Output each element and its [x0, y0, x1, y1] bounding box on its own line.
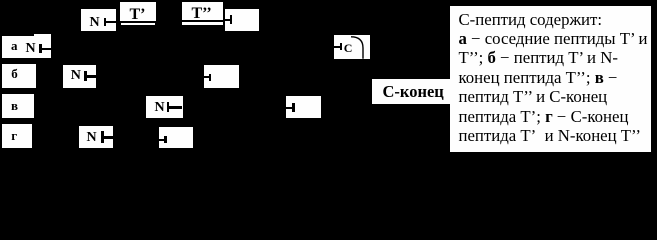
white bar under T'' — [182, 22, 224, 25]
label N (row v) — [155, 101, 165, 115]
label T'' — [192, 6, 212, 22]
wire (row v) — [168, 106, 183, 109]
label C-konec — [383, 84, 444, 101]
label g — [11, 129, 17, 142]
wire into top-right box — [225, 19, 232, 21]
box N (row g) — [79, 126, 113, 148]
label C — [344, 42, 353, 54]
tick in row v right box — [292, 103, 295, 113]
box C-terminus tick (top right) — [225, 9, 260, 30]
wire (row g) — [103, 136, 113, 139]
label N (row b) — [71, 69, 81, 83]
box b label (row b) — [2, 64, 36, 88]
tick in row g right box — [164, 136, 167, 143]
box v label (row v) — [2, 94, 35, 118]
box N (top reference strand, N-terminus) — [81, 9, 116, 31]
box C-tick (row b right) — [204, 65, 239, 88]
tick (row a) — [39, 44, 41, 53]
wire into row g right box — [159, 139, 166, 142]
tick in top-right box — [230, 15, 233, 25]
wire from N tick (top) — [105, 21, 117, 24]
tick in row b right box — [209, 74, 212, 81]
label N (row g) — [87, 131, 97, 145]
label b — [11, 67, 18, 80]
label T' — [130, 7, 146, 23]
tick (row v) — [167, 102, 170, 112]
legend line 2 — [458, 29, 466, 48]
box T' (top) — [120, 2, 156, 21]
box T'' (top) — [182, 2, 223, 20]
box N (row b) — [63, 65, 96, 88]
wire into row b right box — [204, 76, 210, 78]
label a — [11, 39, 18, 52]
box C-tick (row v right) — [286, 96, 321, 118]
tick in C box — [340, 43, 342, 50]
wire (row a) — [41, 48, 52, 50]
box N (row v) — [146, 96, 182, 118]
step rect of row a box — [34, 34, 52, 38]
box C-konec (C-end label box) — [372, 79, 450, 104]
box a (row a, label + N) — [2, 36, 51, 58]
white bar under T' — [121, 23, 155, 26]
tick (row b) — [84, 71, 86, 81]
arc (chain turn) in C box — [334, 35, 370, 59]
legend text box — [448, 4, 653, 154]
tick at N (top) — [104, 18, 106, 26]
wire into row v right box — [286, 107, 292, 109]
label N (row a) — [26, 42, 36, 56]
tick (row g) — [101, 131, 104, 143]
label v — [11, 99, 18, 112]
box C with arc (row a, right) — [334, 35, 370, 59]
wire into C box — [334, 46, 341, 48]
box g label (row g) — [2, 124, 33, 148]
label N (top) — [90, 16, 100, 30]
wire (row b) — [86, 75, 97, 78]
box C-tick (row g right) — [159, 127, 193, 149]
